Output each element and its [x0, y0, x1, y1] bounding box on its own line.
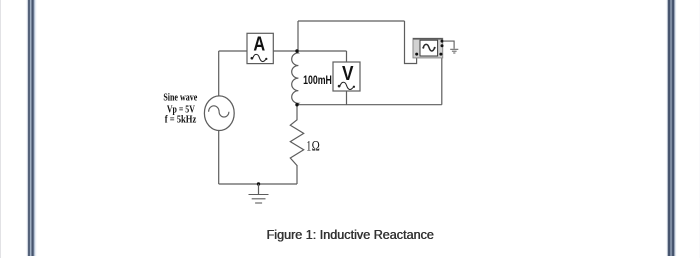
wire ammeter to node A	[273, 50, 297, 52]
ground junction dot	[257, 182, 260, 185]
page border left double line	[26, 0, 37, 256]
wire oscilloscope ground link	[443, 41, 454, 49]
wire oscilloscope channel link	[405, 21, 417, 64]
wire source to ammeter	[219, 50, 247, 52]
oscilloscope XSC1	[413, 38, 444, 58]
svg-text:f = 5kHz: f = 5kHz	[165, 115, 197, 126]
source V1 sine wave	[204, 96, 234, 131]
resistor R1 value label	[306, 138, 319, 154]
svg-text:V: V	[342, 62, 354, 85]
svg-text:1: 1	[306, 138, 311, 154]
wire riser node A to top bus	[297, 21, 299, 51]
voltmeter U2	[333, 62, 360, 91]
svg-text:A: A	[253, 33, 265, 55]
ground symbol main	[249, 184, 269, 203]
wire top bus from node A riser to oscilloscope drop	[298, 20, 405, 22]
inductor L1 value label	[303, 75, 332, 87]
node A junction dot	[295, 49, 298, 52]
source V1 label text	[163, 92, 197, 125]
wire oscilloscope B channel drop	[441, 55, 443, 105]
figure caption	[0, 228, 700, 242]
node B junction dot	[295, 103, 298, 106]
wire node A to voltmeter top	[297, 50, 347, 52]
resistor R1	[290, 105, 303, 166]
screen right edge line	[699, 0, 700, 258]
wire voltmeter top lead	[346, 51, 348, 62]
svg-text:Sine wave: Sine wave	[163, 92, 197, 103]
svg-text:100mH: 100mH	[303, 75, 332, 87]
wire source bottom lead	[218, 131, 220, 185]
wire bottom bus node B to oscilloscope drop	[297, 104, 442, 106]
screen left edge line	[0, 0, 1, 258]
wire bottom return	[219, 183, 297, 185]
ammeter U1	[247, 33, 273, 63]
svg-text:Ω: Ω	[312, 138, 320, 154]
wire resistor bottom lead	[296, 165, 298, 184]
wire voltmeter bottom lead	[346, 91, 348, 105]
page border right double line	[666, 0, 677, 256]
ground symbol oscilloscope	[450, 49, 458, 53]
inductor L1 100mH	[292, 52, 299, 105]
wire source top lead	[218, 51, 220, 96]
